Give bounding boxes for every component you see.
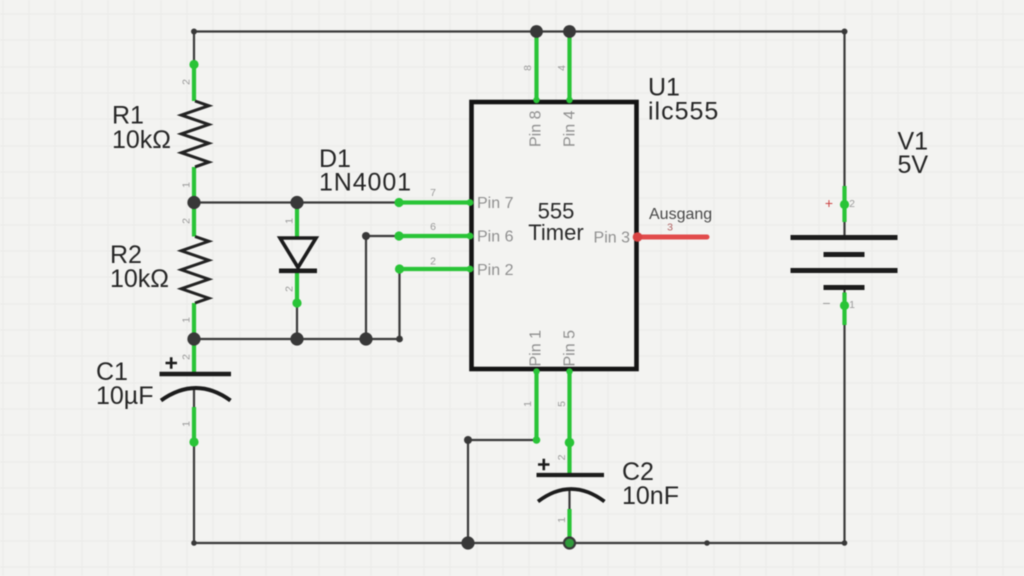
junction node: pin4 top rail xyxy=(563,25,576,38)
wire: right rail lower xyxy=(843,288,845,543)
wire: R1-R2 link xyxy=(193,167,195,237)
net highlight: pin8 stub xyxy=(533,33,539,103)
wire: C2 lower lead xyxy=(568,488,570,543)
resistor R1 xyxy=(181,101,209,167)
node: bottom-left corner xyxy=(191,540,197,546)
node: top-left corner xyxy=(191,29,197,35)
capacitor C2 xyxy=(537,459,605,502)
diode D1 xyxy=(279,238,317,271)
junction node: C2 bottom green overlay xyxy=(565,539,574,548)
wire: R2 to C1 xyxy=(193,303,195,374)
svg-text:1: 1 xyxy=(849,299,855,311)
node: pin2 branch bottom xyxy=(396,336,403,343)
resistor R2 xyxy=(181,237,209,304)
net highlight: C1 pin2 xyxy=(192,339,196,373)
svg-text:Pin 7: Pin 7 xyxy=(477,195,514,212)
svg-text:1: 1 xyxy=(181,317,193,323)
svg-text:10nF: 10nF xyxy=(622,482,679,510)
svg-text:Ausgang: Ausgang xyxy=(649,206,712,223)
svg-text:−: − xyxy=(822,295,830,311)
svg-text:2: 2 xyxy=(181,79,193,85)
net highlight: R1 pin2 xyxy=(189,60,198,101)
wire: bottom rail xyxy=(194,542,845,544)
svg-text:5V: 5V xyxy=(898,151,929,179)
junction node: pin8 top rail xyxy=(530,25,543,38)
svg-text:Pin 2: Pin 2 xyxy=(477,262,514,279)
wire: D1 cathode lead xyxy=(296,271,298,339)
wire: pin1 branch xyxy=(468,371,537,543)
svg-text:Pin 1: Pin 1 xyxy=(528,330,545,367)
net highlight: C2 pin1 xyxy=(567,509,571,543)
wire: pin4 stub xyxy=(568,32,570,102)
node: bottom rail stub xyxy=(704,540,710,546)
svg-text:10µF: 10µF xyxy=(96,382,153,410)
wire: left rail top segment xyxy=(193,32,195,102)
capacitor C1 xyxy=(160,357,232,400)
svg-text:3: 3 xyxy=(667,222,673,234)
net highlight: C1 pin1 xyxy=(189,407,198,447)
svg-text:4: 4 xyxy=(556,65,568,71)
node: bottom-right corner xyxy=(842,540,848,546)
net highlight: V1 pin2 xyxy=(840,186,849,222)
net highlight: pin2 wire xyxy=(395,264,474,273)
svg-text:1: 1 xyxy=(181,421,193,427)
net highlight: D1 pin1 xyxy=(295,203,299,238)
svg-text:1: 1 xyxy=(556,517,568,523)
junction node: R1/R2/pin7 xyxy=(187,196,200,209)
svg-text:Pin 8: Pin 8 xyxy=(528,110,545,147)
junction node: D1 cathode bus xyxy=(290,332,303,345)
net highlight: pin1 wire xyxy=(533,368,541,444)
svg-text:Timer: Timer xyxy=(528,220,583,245)
junction node: pin1 bottom rail xyxy=(461,536,474,549)
wire: lower node bus xyxy=(194,338,400,340)
svg-text:7: 7 xyxy=(430,187,436,199)
wire: pin6 branch xyxy=(366,236,468,339)
net highlight: R2 pin2 xyxy=(192,203,196,237)
battery V1 xyxy=(791,238,898,288)
junction node: pin6 branch bus xyxy=(359,332,372,345)
node: pin6 corner xyxy=(362,232,370,240)
wire: pin2 branch xyxy=(400,269,469,339)
svg-text:Pin 3: Pin 3 xyxy=(594,230,631,247)
svg-text:Pin 6: Pin 6 xyxy=(477,229,514,246)
wire: pin8 stub xyxy=(535,32,537,102)
svg-text:1N4001: 1N4001 xyxy=(319,169,412,197)
svg-text:+: + xyxy=(825,195,833,211)
junction node: R2/C1 bus xyxy=(187,332,200,345)
svg-text:10kΩ: 10kΩ xyxy=(110,265,169,293)
svg-text:2: 2 xyxy=(430,256,436,268)
svg-text:Pin 5: Pin 5 xyxy=(562,330,579,367)
svg-text:1: 1 xyxy=(522,401,534,407)
net highlight: pin6 wire xyxy=(394,231,473,240)
node: top-right corner xyxy=(842,29,848,35)
wire: C1 to bottom rail xyxy=(193,388,195,543)
wire: right rail upper xyxy=(843,32,845,238)
svg-text:2: 2 xyxy=(849,198,855,210)
svg-text:2: 2 xyxy=(556,454,568,460)
wire: D1 anode lead xyxy=(296,203,298,239)
net highlight: R1 pin1 xyxy=(192,167,196,203)
svg-text:2: 2 xyxy=(181,218,193,224)
wire: top rail xyxy=(194,30,845,32)
net highlight: pin7 wire xyxy=(394,198,473,207)
wire: Ausgang output (red) xyxy=(633,232,710,242)
svg-text:8: 8 xyxy=(522,65,534,71)
op-amp/IC body U1 555 xyxy=(472,102,637,369)
wire: pin5 to C2 xyxy=(568,371,570,475)
svg-text:2: 2 xyxy=(284,286,296,292)
net highlight: R2 pin1 xyxy=(192,303,196,339)
junction node: D1 anode xyxy=(290,196,303,209)
svg-text:2: 2 xyxy=(181,354,193,360)
junction node: C2 bottom rail xyxy=(563,536,576,549)
net highlight: V1 pin1 xyxy=(840,293,849,326)
net highlight: pin4 stub xyxy=(566,33,572,103)
net highlight: D1 pin2 xyxy=(292,271,301,308)
node: pin1 corner xyxy=(464,436,472,444)
svg-text:ilc555: ilc555 xyxy=(648,98,719,126)
svg-text:1: 1 xyxy=(181,182,193,188)
svg-text:10kΩ: 10kΩ xyxy=(112,126,171,154)
svg-text:1: 1 xyxy=(284,218,296,224)
wire: node to pin7 xyxy=(194,201,468,203)
svg-text:5: 5 xyxy=(556,401,568,407)
svg-text:Pin 4: Pin 4 xyxy=(562,110,579,147)
svg-text:6: 6 xyxy=(430,221,436,233)
net highlight: pin5 wire to C2 xyxy=(565,368,575,476)
